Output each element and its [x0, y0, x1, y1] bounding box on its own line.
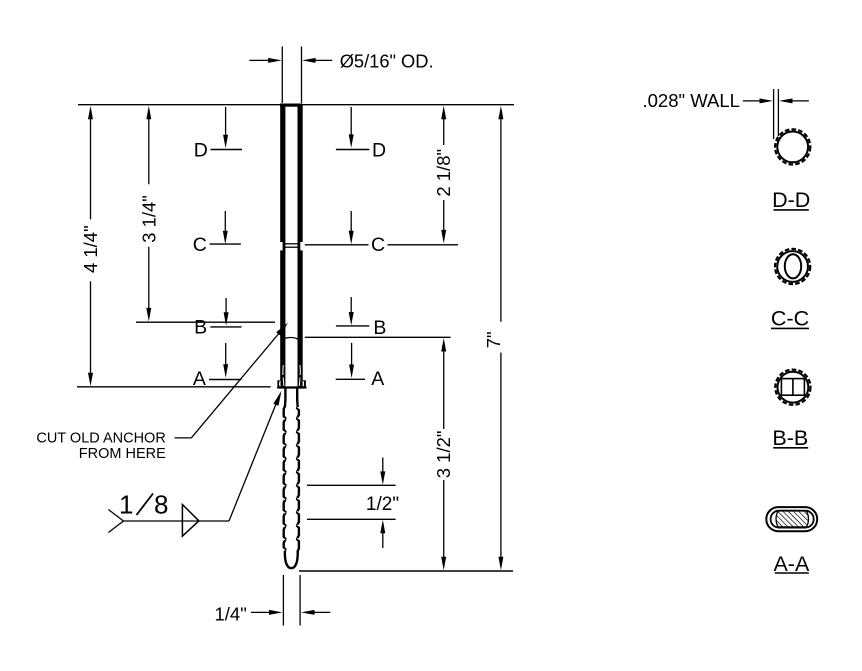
- dim 7 arrow down: [500, 563, 502, 566]
- section C line right part 2: [388, 244, 459, 246]
- section B long line left: [136, 321, 275, 323]
- dim 2 1/8 arrow down: [443, 237, 445, 240]
- rod edge notch cuts: [282, 407, 301, 550]
- bottom extension line (7 and 3 1/2): [299, 570, 513, 572]
- dim 1/4 arrow right: [305, 611, 330, 613]
- svg-text:A: A: [193, 368, 206, 390]
- line at bottom of upper tube / top ext of 3 1/2: [305, 336, 451, 338]
- dim 1/2 top line: [307, 484, 396, 486]
- svg-text:B-B: B-B: [772, 426, 808, 450]
- svg-text:B: B: [373, 317, 386, 339]
- dim 4 1/4 line upper: [90, 111, 92, 219]
- dim 1/2 bottom line: [307, 518, 396, 520]
- svg-text:D-D: D-D: [772, 188, 810, 212]
- tube foot flare right: [303, 380, 306, 387]
- section C line right (to 2 1/8 ext) part 1: [305, 244, 369, 246]
- dim 1/4 extension line left: [282, 575, 284, 626]
- dim 1/2 arrow lower: [382, 524, 384, 548]
- dim 3 1/2 arrow down: [443, 563, 445, 566]
- dim 3 1/4 line upper: [148, 111, 150, 184]
- tube bottom end line: [277, 386, 306, 388]
- wire top extension line right of tube: [302, 104, 514, 106]
- wall thickness pictorial lines: [773, 89, 775, 139]
- svg-text:C: C: [371, 234, 385, 256]
- OD dim arrow left: [249, 59, 277, 61]
- section C tick left: [210, 243, 241, 245]
- section B-B ring: [775, 370, 810, 405]
- tube foot flare left: [277, 380, 280, 387]
- dim 2 1/8 line upper: [443, 111, 445, 145]
- OD dim arrow right: [306, 59, 332, 61]
- dim 2 1/8 line lower: [443, 200, 445, 238]
- section A-A inner stadium: [771, 511, 814, 528]
- tube right wall: [298, 105, 303, 388]
- tube foot white hook left: [279, 381, 282, 386]
- section B tick right: [336, 325, 369, 327]
- extension line right for OD dim: [301, 47, 303, 104]
- tube joint notch right (splice at C): [300, 242, 303, 250]
- tube crimp inner slit left: [283, 365, 284, 386]
- section C-C ring: [775, 249, 810, 284]
- svg-text:1: 1: [119, 490, 133, 520]
- svg-text:D: D: [372, 140, 386, 162]
- dim 3 1/4 arrow up: [148, 110, 150, 112]
- svg-text:Ø5/16" OD.: Ø5/16" OD.: [340, 51, 434, 72]
- dim 4 1/4 arrow up: [90, 110, 92, 112]
- weld symbol slash: [137, 494, 154, 516]
- dim 3 1/2 line upper: [443, 344, 445, 429]
- leader from note: horizontal stub: [175, 437, 192, 439]
- section D tick left: [211, 149, 243, 151]
- section A arrow right: [351, 343, 353, 374]
- section A long line left: [77, 386, 271, 388]
- section B-B divider: [792, 379, 794, 396]
- section A arrow left: [225, 343, 227, 374]
- section A tick right: [336, 378, 365, 380]
- weld symbol reference line: [124, 520, 230, 522]
- weld leader diagonal: [229, 395, 280, 522]
- svg-text:7": 7": [483, 331, 504, 348]
- svg-text:CUT OLD ANCHOR: CUT OLD ANCHOR: [36, 431, 165, 447]
- section A tick left: [209, 379, 241, 381]
- svg-text:A: A: [371, 368, 384, 390]
- svg-text:3 1/2": 3 1/2": [433, 431, 454, 479]
- weld symbol triangle (open arrow): [182, 505, 199, 537]
- leader from note: arrowhead: [276, 323, 288, 336]
- tube left wall: [280, 105, 285, 388]
- tube joint seam line upper: [284, 243, 299, 245]
- tube foot white hook right: [302, 381, 305, 386]
- svg-text:4 1/4": 4 1/4": [80, 225, 101, 273]
- svg-text:1/2": 1/2": [366, 494, 399, 515]
- dim 3 1/2 line lower: [443, 480, 445, 564]
- dim 3 1/4 line lower: [148, 247, 150, 316]
- svg-text:8: 8: [154, 490, 168, 520]
- tube crimp inner slit right: [299, 365, 300, 386]
- svg-text:3 1/4": 3 1/4": [139, 195, 160, 243]
- section B arrow right: [350, 297, 352, 322]
- section D-D ring: [775, 129, 810, 164]
- tube interior break arc near B: [283, 337, 298, 339]
- old anchor rod outline (wavy): [284, 388, 299, 569]
- leader from note: diagonal: [191, 326, 285, 438]
- section A-A outer stadium: [766, 507, 817, 531]
- section D arrow right: [350, 107, 352, 144]
- section B arrow left: [225, 298, 227, 322]
- svg-text:FROM HERE: FROM HERE: [79, 446, 166, 462]
- wall dim arrow left: [743, 100, 769, 102]
- tube joint notch left (splice at C): [280, 242, 283, 250]
- wire top extension line left of tube: [78, 104, 281, 106]
- dim 2 1/8 arrow up: [443, 110, 445, 112]
- svg-text:C-C: C-C: [771, 307, 809, 331]
- section C arrow right: [350, 211, 352, 240]
- weld leader arrowhead: [273, 391, 281, 406]
- dim 4 1/4 line lower: [90, 281, 92, 380]
- dim 4 1/4 arrow down: [90, 379, 92, 382]
- section A-A hatched core: [776, 511, 808, 527]
- svg-text:B: B: [194, 317, 207, 339]
- svg-text:.028" WALL: .028" WALL: [643, 90, 740, 111]
- dim 7 line lower: [500, 353, 502, 564]
- tube top cap edge: [280, 104, 303, 107]
- svg-text:1/4": 1/4": [215, 603, 247, 624]
- section B-B inner rect: [781, 379, 804, 396]
- tube joint seam line lower: [284, 246, 299, 248]
- dim 1/4 extension line right: [299, 575, 301, 626]
- section D tick right: [336, 149, 369, 151]
- dim 1/4 arrow left: [251, 611, 279, 613]
- weld symbol tail fork lower: [108, 521, 123, 533]
- wall dim arrow right: [783, 100, 809, 102]
- dim 3 1/2 arrow up: [443, 342, 445, 345]
- svg-text:C: C: [193, 234, 207, 256]
- dim 3 1/4 arrow down: [148, 315, 150, 318]
- section D arrow left: [225, 107, 227, 144]
- weld symbol tail fork upper: [108, 510, 123, 522]
- dim 7 line upper: [500, 111, 502, 322]
- extension line left for OD dim: [281, 47, 283, 104]
- dim 7 arrow up: [500, 110, 502, 112]
- svg-text:2 1/8": 2 1/8": [433, 149, 454, 197]
- dim 1/2 arrow upper: [382, 458, 384, 481]
- section C arrow left: [224, 211, 226, 240]
- section C-C inner oval: [785, 254, 801, 278]
- svg-text:D: D: [194, 140, 208, 162]
- section B tick left: [210, 326, 241, 328]
